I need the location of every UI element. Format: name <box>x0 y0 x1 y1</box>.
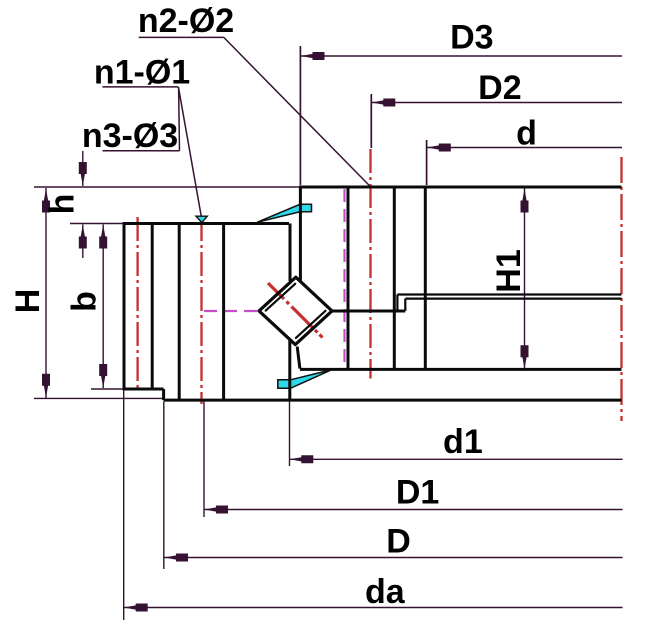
svg-text:h: h <box>43 194 81 215</box>
svg-text:D: D <box>386 523 411 561</box>
svg-text:d1: d1 <box>443 423 483 461</box>
svg-text:da: da <box>365 573 406 611</box>
svg-text:n3-Ø3: n3-Ø3 <box>82 117 178 155</box>
svg-text:H: H <box>9 289 47 314</box>
svg-text:H1: H1 <box>490 249 528 292</box>
svg-text:D2: D2 <box>478 69 521 107</box>
svg-text:D1: D1 <box>396 474 439 512</box>
svg-text:b: b <box>65 291 103 312</box>
svg-text:D3: D3 <box>450 19 493 57</box>
svg-text:n2-Ø2: n2-Ø2 <box>138 2 234 40</box>
svg-text:d: d <box>516 115 537 153</box>
svg-text:n1-Ø1: n1-Ø1 <box>94 54 190 92</box>
